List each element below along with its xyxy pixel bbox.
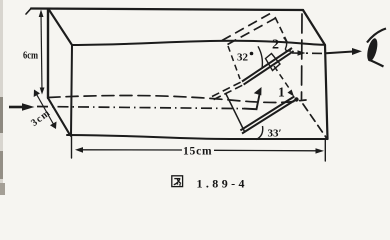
svg-text:33′: 33′ bbox=[268, 128, 282, 140]
wire: bottom front edge H-I bbox=[67, 135, 328, 139]
mirror M2 (upper, 32°) double line bbox=[242, 48, 294, 85]
svg-text:15cm: 15cm bbox=[183, 146, 212, 158]
svg-text:6cm: 6cm bbox=[23, 51, 39, 62]
wire: top back edge A-B with left extension bbox=[31, 9, 303, 11]
junction blob at mirror1 top bbox=[294, 97, 298, 101]
eye symbol bbox=[365, 29, 386, 67]
wire: hidden bottom-right depth edge (dashed) bbox=[303, 104, 327, 138]
wire: front-left vertical edge G-H bbox=[71, 45, 72, 136]
page left edge shading bbox=[0, 0, 3, 195]
wire: left-back vertical edge A-J bbox=[47, 9, 49, 98]
ray: bend up between mirrors with arrow bbox=[244, 87, 262, 109]
svg-text:2: 2 bbox=[272, 38, 279, 53]
wire: top-right depth edge B-C bbox=[303, 10, 325, 45]
mirror M1 (lower, 33°) double line bbox=[240, 96, 296, 133]
wire: top-left depth edge A-G bbox=[49, 9, 73, 45]
ray: entering dash-dot ray bbox=[37, 107, 244, 109]
wire: hidden back-bottom edge (dashed) bbox=[48, 95, 306, 102]
angle arc 33° bbox=[256, 126, 263, 140]
wire: right front vertical edge C-I bbox=[325, 45, 328, 139]
angle arc 32° bbox=[258, 46, 262, 68]
dashed connector ceiling to mirror2 top bbox=[275, 17, 289, 45]
mirror M1 plane left side edge bbox=[226, 93, 246, 133]
svg-text:32: 32 bbox=[237, 52, 249, 64]
dashed left side of mirror2 plane bbox=[228, 46, 240, 79]
ray: exit dash-dot with small arrow bbox=[292, 50, 326, 56]
wire: 15cm extension line right bbox=[324, 140, 326, 161]
caption 图 glyph (drawn) bbox=[172, 176, 183, 187]
wire: hidden right-back vertical edge (dashed) bbox=[301, 14, 304, 99]
dimension 3cm line bbox=[34, 90, 57, 130]
wire: roof front-top edge G-C bbox=[72, 41, 325, 45]
wire: bottom-left depth edge J-H bbox=[48, 98, 70, 135]
dimension 6cm line bbox=[39, 10, 45, 95]
small tick under mirror 2 bbox=[266, 54, 281, 71]
entry light arrow bbox=[9, 103, 35, 111]
ray: exit solid arrow to eye bbox=[326, 48, 362, 55]
mirror M2 dashed extension (double) bbox=[212, 82, 244, 100]
wire: 15cm extension line left bbox=[71, 136, 73, 158]
svg-text:1: 1 bbox=[278, 85, 285, 100]
mirror M2 dashed ceiling trace (double) bbox=[222, 12, 278, 45]
wire: small hook top-left bbox=[26, 9, 31, 15]
dimension 15cm line bbox=[75, 147, 324, 154]
svg-text:1.89-4: 1.89-4 bbox=[197, 177, 248, 191]
